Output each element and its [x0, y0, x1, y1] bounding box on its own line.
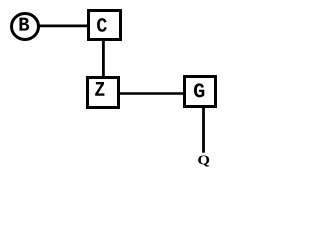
node B circle: [12, 14, 39, 40]
wire Z-G: [119, 92, 185, 95]
node G box: [185, 77, 216, 107]
node Z box: [88, 78, 119, 108]
node Q label: [198, 155, 209, 166]
wire B-C: [38, 24, 89, 27]
wire G-Q: [202, 107, 205, 153]
node C box: [89, 11, 121, 40]
wire C-Z: [102, 40, 105, 77]
